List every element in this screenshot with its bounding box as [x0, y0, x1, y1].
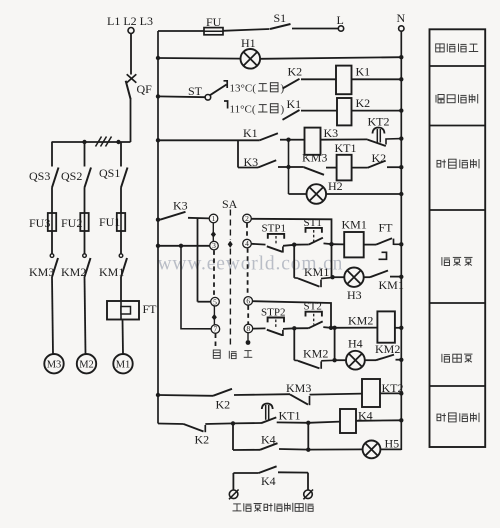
svg-text:KT1: KT1	[279, 409, 301, 423]
svg-text:M1: M1	[116, 360, 131, 371]
wire	[130, 34, 132, 75]
svg-text:FT: FT	[143, 302, 158, 316]
SA contact point 3	[210, 241, 219, 250]
svg-text:QS1: QS1	[99, 166, 120, 180]
wire	[233, 472, 258, 474]
svg-text:KM1: KM1	[342, 218, 367, 232]
wire	[253, 327, 266, 329]
wire	[308, 422, 340, 423]
wire	[293, 245, 295, 278]
contact KM2	[376, 355, 394, 361]
fuse FU2	[80, 213, 88, 231]
svg-text:13°C(: 13°C(	[230, 83, 257, 95]
wire	[120, 277, 122, 301]
svg-text:KM3: KM3	[302, 151, 327, 165]
svg-text:ST2: ST2	[304, 301, 322, 313]
contact K2	[368, 161, 386, 168]
terminal to external circuit left	[229, 490, 239, 500]
svg-text:5: 5	[213, 297, 217, 306]
contact K2 (to K1 coil)	[283, 79, 300, 89]
contact K3	[258, 160, 276, 167]
wire	[120, 231, 122, 254]
svg-text:K3: K3	[173, 199, 188, 213]
legend row divider	[430, 65, 486, 67]
svg-text:KT1: KT1	[335, 141, 357, 155]
SA linkage 3-5 dashed	[213, 250, 215, 297]
wire from rail to SA 7	[181, 246, 211, 329]
relay coil K4	[340, 409, 356, 433]
legend row divider	[430, 302, 486, 304]
contact K2	[213, 389, 232, 396]
wire from SA 2	[251, 219, 331, 245]
svg-text:KM1: KM1	[379, 278, 404, 292]
SA linkage 6-8 dashed	[247, 305, 249, 324]
junction	[286, 165, 290, 169]
wire	[289, 193, 307, 195]
wire	[396, 359, 402, 361]
pushbutton ST2	[306, 312, 323, 329]
motor M1	[113, 354, 132, 373]
SA contact point 6	[244, 297, 253, 306]
SA axis dashed	[229, 249, 231, 349]
junction	[399, 358, 403, 362]
wire	[310, 394, 363, 395]
label to-refrigerator-control-circuit	[233, 503, 314, 512]
legend time-control	[437, 159, 479, 168]
svg-text:N: N	[397, 11, 406, 25]
wire	[84, 188, 86, 214]
wire	[323, 326, 331, 329]
motor M3	[44, 354, 63, 373]
node vertical	[288, 140, 290, 194]
junction	[332, 358, 336, 362]
junction	[399, 108, 403, 112]
pushbutton ST1	[306, 228, 323, 245]
svg-text:H4: H4	[348, 337, 363, 351]
timer coil KT1	[337, 155, 352, 181]
svg-text:H5: H5	[385, 437, 400, 451]
junction	[292, 326, 296, 330]
terminal L2 input	[128, 28, 134, 34]
fuse FU	[204, 28, 223, 35]
wire	[289, 166, 304, 168]
wire	[158, 139, 260, 141]
wire	[158, 245, 210, 247]
wire	[380, 392, 401, 394]
legend freezer-pump	[442, 257, 473, 265]
junction	[399, 136, 403, 140]
wire	[292, 28, 338, 30]
wire	[233, 422, 261, 424]
svg-text:FU3: FU3	[29, 216, 50, 230]
wire	[279, 448, 308, 451]
legend table frame	[430, 29, 486, 447]
junction	[156, 56, 160, 60]
labels auto stop manual	[213, 350, 252, 359]
svg-text:7: 7	[214, 325, 218, 334]
wire	[331, 244, 333, 277]
wire	[120, 142, 122, 167]
svg-text:H2: H2	[328, 179, 343, 193]
wire	[380, 448, 401, 450]
junction	[399, 418, 403, 422]
junction	[399, 55, 403, 59]
SA position marker	[228, 241, 233, 248]
svg-text:3: 3	[212, 241, 216, 250]
lamp H1	[241, 49, 261, 69]
svg-text:8: 8	[247, 324, 251, 333]
switch QS2	[85, 168, 92, 188]
svg-text:QF: QF	[137, 82, 153, 96]
wire	[390, 276, 401, 278]
SA contact point 4	[243, 239, 252, 248]
junction	[399, 326, 403, 330]
junction	[399, 391, 403, 395]
wire	[198, 301, 211, 303]
contact KM1 self-hold	[294, 277, 333, 287]
SA linkage below 8	[247, 333, 249, 340]
terminal N	[399, 26, 404, 31]
SA contact point 7	[211, 325, 220, 334]
svg-text:): )	[281, 104, 285, 116]
svg-text:KM1: KM1	[304, 265, 329, 279]
svg-text:STP1: STP1	[262, 223, 286, 235]
svg-text:QS3: QS3	[29, 169, 50, 183]
timer coil KT2	[362, 379, 380, 407]
svg-text:KM1: KM1	[99, 265, 124, 279]
fuse FU1	[117, 213, 125, 231]
junction	[156, 393, 160, 397]
junction	[329, 242, 333, 246]
svg-text:SA: SA	[222, 197, 238, 211]
wire	[251, 243, 265, 246]
svg-text:FU1: FU1	[99, 215, 120, 229]
wire	[188, 217, 209, 220]
svg-text:K2: K2	[195, 433, 210, 447]
wire	[283, 245, 294, 246]
lamp H4	[346, 351, 365, 370]
svg-text:KM3: KM3	[29, 265, 54, 279]
contactor main contact KM1	[119, 254, 127, 277]
wire	[51, 142, 53, 167]
lamp H2	[307, 184, 327, 204]
junction	[332, 326, 336, 330]
thermal contact FT	[376, 238, 401, 259]
wire	[308, 448, 362, 450]
wire	[289, 139, 305, 141]
svg-text:2: 2	[245, 214, 249, 223]
switch S1	[270, 24, 291, 29]
junction	[156, 94, 160, 98]
junction	[399, 165, 403, 169]
breaker QF	[126, 74, 137, 99]
wire	[158, 394, 213, 397]
wire	[334, 328, 336, 360]
svg-text:M2: M2	[79, 360, 94, 371]
svg-text:K2: K2	[216, 398, 231, 412]
junction	[306, 421, 310, 425]
contact KM2 self-hold	[294, 360, 334, 369]
wire	[278, 471, 308, 473]
wire	[232, 473, 234, 490]
legend temperature-control	[436, 94, 478, 103]
SA position marker	[211, 231, 216, 238]
three-phase hatch marks	[96, 137, 112, 147]
svg-text:KT2: KT2	[368, 115, 390, 129]
wire	[278, 166, 289, 168]
svg-text:ST1: ST1	[304, 217, 322, 229]
SA linkage 2-4 dashed	[246, 223, 248, 239]
wire	[84, 142, 86, 167]
wire	[364, 276, 370, 278]
switch QS1	[121, 168, 128, 188]
contact KM3	[290, 394, 310, 405]
pushbutton STP2	[267, 318, 284, 337]
temperature switch ST pivot	[205, 95, 211, 101]
SA position ball	[246, 340, 251, 345]
wire	[280, 139, 289, 141]
contact KM3	[304, 167, 324, 175]
SA linkage 4-6 dashed	[247, 248, 249, 296]
svg-text:K2: K2	[356, 96, 371, 110]
legend row divider	[430, 125, 486, 127]
contact K2	[184, 424, 206, 432]
wire from SA 6	[253, 301, 332, 328]
wire to SA contact 5	[197, 218, 199, 302]
fuse FU3	[48, 213, 56, 231]
SA contact point 5	[211, 297, 220, 306]
wire	[352, 110, 402, 112]
contact K4 (external)	[259, 466, 277, 473]
legend time-control	[437, 413, 479, 422]
wire	[205, 422, 233, 425]
terminal L	[338, 26, 343, 31]
wire	[307, 473, 309, 490]
wire	[158, 95, 205, 98]
contact K4	[260, 443, 278, 450]
svg-text:K4: K4	[261, 474, 276, 488]
wire	[223, 29, 270, 31]
wire	[234, 393, 290, 396]
junction	[179, 244, 183, 248]
time-delay contact KT2	[368, 128, 402, 147]
svg-text:FU: FU	[206, 15, 222, 29]
wire	[395, 327, 401, 329]
relay coil K2	[337, 98, 352, 125]
junction	[156, 138, 160, 142]
wire	[324, 242, 332, 245]
svg-text:L1 L2 L3: L1 L2 L3	[107, 14, 153, 28]
wire	[301, 78, 336, 80]
junction	[292, 243, 296, 247]
wire	[356, 419, 401, 422]
SA contact point 8	[244, 324, 253, 333]
svg-text:KM2: KM2	[303, 347, 328, 361]
wire	[158, 57, 241, 60]
wire	[335, 359, 346, 361]
junction	[82, 140, 86, 144]
terminal to external circuit right	[303, 490, 313, 500]
wire	[52, 277, 53, 354]
SA linkage 5-7	[213, 306, 215, 324]
motor M2	[77, 354, 96, 373]
left rail of control circuit	[157, 31, 159, 424]
wire	[122, 320, 125, 355]
ST upper fixed contact	[224, 81, 228, 88]
junction	[399, 242, 403, 246]
wire	[326, 167, 337, 169]
wire	[283, 327, 294, 330]
svg-text:KM2: KM2	[375, 342, 400, 356]
svg-text:KM3: KM3	[286, 381, 311, 395]
relay coil K1	[336, 66, 352, 95]
SA contact point 2	[243, 214, 252, 223]
contact K1	[260, 133, 278, 140]
svg-text:STP2: STP2	[261, 307, 285, 319]
svg-text:H3: H3	[347, 288, 362, 302]
svg-text:K1: K1	[356, 65, 371, 79]
contactor main contact KM2	[83, 254, 91, 277]
switch QS3	[52, 168, 59, 188]
svg-text:K1: K1	[287, 97, 302, 111]
wire	[120, 188, 122, 214]
wire	[294, 327, 308, 329]
junction	[156, 244, 160, 248]
legend cooling-pump	[442, 354, 473, 362]
wire	[237, 140, 239, 167]
SA axis dashed	[229, 210, 231, 241]
wire	[294, 244, 309, 246]
SA linkage below 7 dashed	[215, 334, 217, 348]
wire	[321, 138, 368, 140]
junction	[286, 138, 290, 142]
wire	[158, 423, 184, 426]
wire	[331, 327, 377, 329]
svg-text:QS2: QS2	[61, 169, 82, 183]
svg-text:K2: K2	[288, 65, 303, 79]
wire	[333, 276, 345, 278]
junction	[329, 326, 333, 330]
contact K1 (to K2 coil)	[283, 110, 300, 120]
wire	[293, 328, 295, 360]
SA linkage 1-3	[212, 223, 214, 241]
pushbutton STP1	[267, 234, 284, 253]
svg-text:KM2: KM2	[61, 265, 86, 279]
legend row divider	[430, 209, 486, 211]
contact K3	[160, 212, 186, 220]
wire	[352, 78, 402, 80]
wire	[233, 449, 260, 451]
wire	[301, 110, 337, 112]
wire	[130, 100, 132, 143]
wire	[277, 421, 309, 423]
junction	[399, 77, 403, 81]
right rail N bus	[400, 31, 402, 450]
wire	[365, 359, 376, 361]
SA position marker	[212, 314, 217, 321]
contact KM1	[370, 271, 388, 278]
wire	[352, 167, 368, 169]
SA contact point 1	[209, 214, 218, 223]
junction	[330, 275, 334, 279]
svg-text:6: 6	[246, 297, 250, 306]
wire	[387, 166, 401, 168]
wire three-phase bus	[52, 141, 131, 143]
wire	[51, 188, 53, 214]
ST lower fixed contact	[224, 101, 228, 109]
wire	[51, 231, 53, 254]
junction	[116, 140, 120, 144]
lamp H3	[344, 268, 363, 287]
svg-text:FU2: FU2	[61, 216, 82, 230]
svg-text:H1: H1	[241, 36, 256, 50]
svg-text:11°C(: 11°C(	[230, 104, 256, 116]
svg-text:L: L	[337, 13, 344, 27]
svg-text:1: 1	[212, 214, 216, 223]
junction	[306, 448, 310, 452]
junction	[156, 218, 160, 222]
wire	[84, 231, 86, 254]
wire	[326, 193, 401, 195]
thermal relay FT heater	[107, 301, 139, 320]
svg-text:4: 4	[245, 239, 249, 248]
wire	[307, 423, 309, 450]
legend row divider	[430, 385, 486, 387]
contactor main contact KM3	[50, 254, 58, 277]
ST blade upper	[210, 85, 227, 96]
wire	[158, 30, 204, 32]
junction	[399, 192, 403, 196]
svg-text:M3: M3	[47, 360, 62, 371]
svg-text:S1: S1	[274, 11, 287, 25]
wire	[260, 57, 401, 59]
svg-text:FT: FT	[379, 221, 394, 235]
legend power-indication	[436, 44, 479, 52]
wire	[238, 167, 258, 169]
lamp H5	[363, 441, 381, 459]
svg-text:KM2: KM2	[348, 314, 373, 328]
wire	[364, 244, 376, 246]
junction	[231, 421, 235, 425]
relay coil K3	[305, 128, 321, 155]
junction	[399, 275, 403, 279]
wire	[232, 423, 234, 450]
contactor coil KM1	[344, 232, 364, 257]
wire	[85, 277, 86, 354]
time-delay contact KT1	[261, 404, 276, 424]
svg-text:K3: K3	[324, 126, 339, 140]
svg-text:ST: ST	[188, 84, 203, 98]
svg-text:K1: K1	[243, 126, 258, 140]
contactor coil KM2	[377, 311, 395, 342]
wire	[332, 243, 345, 245]
